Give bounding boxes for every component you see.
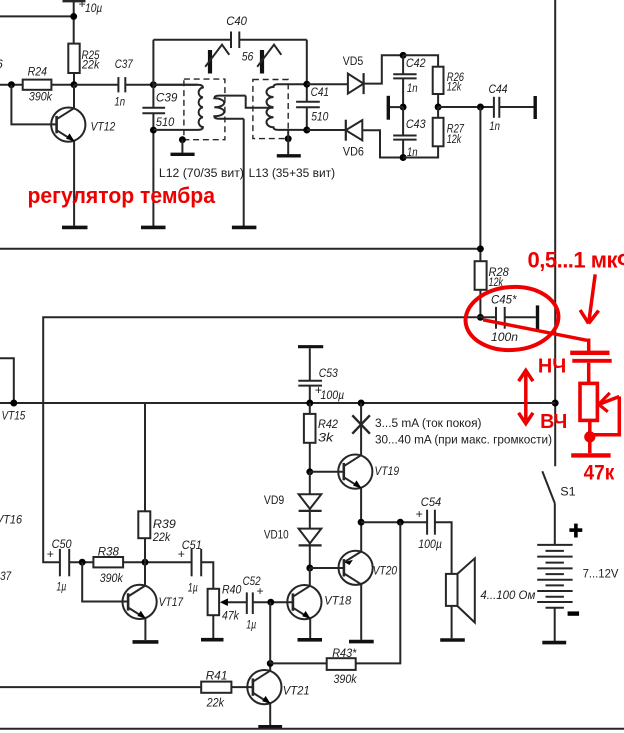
ground L13 shield xyxy=(277,130,301,156)
node VD10 / VT18 collector junction xyxy=(306,565,313,572)
ground VT18 xyxy=(298,638,323,642)
resistor R25 xyxy=(68,44,100,85)
svg-text:10µ: 10µ xyxy=(85,1,102,15)
svg-text:1µ: 1µ xyxy=(246,617,256,631)
inductor L12 shield box (dashed) xyxy=(184,79,225,140)
capacitor C51 xyxy=(178,538,214,595)
ground battery xyxy=(542,641,566,645)
wire left edge to R41 xyxy=(0,686,201,688)
wire top-left to +10u junction xyxy=(0,15,74,17)
svg-text:ВЧ: ВЧ xyxy=(540,411,567,433)
transistor VT17 xyxy=(123,562,185,640)
node VT19 base junction xyxy=(306,468,313,475)
node C52 / VT21 junction xyxy=(267,599,274,606)
svg-text:VD10: VD10 xyxy=(264,527,289,541)
capacitor C34 (+10u, cut at top edge) xyxy=(63,1,86,43)
trimmer arrow L13 xyxy=(257,45,281,74)
svg-text:12k: 12k xyxy=(447,132,462,146)
terminal bar C53 top xyxy=(298,345,323,348)
node base feedback junction xyxy=(8,81,15,88)
red circle around C45 xyxy=(463,284,560,353)
svg-text:+: + xyxy=(416,507,423,521)
capacitor C53 xyxy=(298,348,344,403)
terminal bar C44 output xyxy=(534,96,537,119)
svg-text:47к: 47к xyxy=(584,462,615,485)
node R39/C51 junction xyxy=(142,559,149,566)
speaker BA1 xyxy=(446,558,536,638)
svg-text:1n: 1n xyxy=(489,119,500,133)
red annotations xyxy=(28,183,624,485)
node detector bottom junction xyxy=(400,154,407,161)
svg-text:VD5: VD5 xyxy=(343,54,364,68)
wire C44 junction down to R28 xyxy=(479,107,481,261)
ground VT12 emitter xyxy=(62,226,88,230)
resistor R43* xyxy=(270,522,400,686)
svg-text:C40: C40 xyxy=(226,14,247,28)
transistor VT19 xyxy=(310,455,399,523)
svg-text:VT18: VT18 xyxy=(324,594,351,608)
svg-text:22k: 22k xyxy=(152,530,171,544)
svg-text:12k: 12k xyxy=(447,80,462,94)
svg-text:22k: 22k xyxy=(81,57,100,71)
svg-text:НЧ: НЧ xyxy=(538,356,566,378)
svg-text:R43*: R43* xyxy=(332,646,357,660)
node C39 bottom junction xyxy=(150,127,157,134)
svg-text:390k: 390k xyxy=(334,672,358,686)
resistor R38 xyxy=(93,544,191,585)
svg-text:+: + xyxy=(257,584,264,598)
capacitor C39 xyxy=(142,40,177,226)
resistor R26 xyxy=(403,55,464,107)
switch S1 xyxy=(542,471,576,545)
capacitor C42 xyxy=(393,55,426,107)
svg-text:100n: 100n xyxy=(491,330,518,344)
ground VT21 xyxy=(258,725,282,729)
svg-text:VT12: VT12 xyxy=(91,119,116,133)
ground R40 xyxy=(201,638,224,642)
node L12 shield dot xyxy=(179,136,186,143)
resistor R39 xyxy=(138,403,176,562)
terminal bar common (mid) xyxy=(388,96,403,120)
diode VD6 xyxy=(307,120,403,159)
svg-text:R39: R39 xyxy=(153,517,176,531)
node VT21 collector junction xyxy=(267,660,274,667)
inductor L13 shield box (dashed) xyxy=(253,80,288,139)
node junction at +10u xyxy=(70,13,77,20)
red double arrow NCh/VCh xyxy=(519,370,533,423)
potentiometer R40 xyxy=(208,583,242,639)
svg-text:3...5 mA (ток покоя): 3...5 mA (ток покоя) xyxy=(375,416,482,430)
svg-text:R40: R40 xyxy=(222,583,241,597)
svg-text:3k: 3k xyxy=(318,431,334,445)
transistor VT20 xyxy=(310,522,397,640)
wire left edge to R24 xyxy=(0,84,23,86)
node detector mid junction xyxy=(400,104,407,111)
transistor VT21 xyxy=(247,663,309,725)
node junction y248.8 xyxy=(477,245,484,252)
ground L12 secondary xyxy=(232,226,257,230)
svg-text:56: 56 xyxy=(242,49,254,63)
label battery plus xyxy=(569,524,582,538)
red capacitor NCh xyxy=(570,353,612,384)
wire VT21 collector to C52 junction xyxy=(269,602,271,663)
svg-text:47k: 47k xyxy=(222,609,240,623)
svg-text:6: 6 xyxy=(0,57,3,71)
node C44 junction xyxy=(477,104,484,111)
svg-text:VT17: VT17 xyxy=(159,595,185,609)
node VT19 emitter junction xyxy=(358,519,365,526)
inductor L12 secondary winding xyxy=(214,96,245,119)
svg-text:4...100 Ом: 4...100 Ом xyxy=(480,588,535,602)
svg-text:1n: 1n xyxy=(407,81,418,95)
capacitor C45 xyxy=(480,293,535,344)
node detector top junction xyxy=(400,52,407,59)
svg-text:C37: C37 xyxy=(115,57,134,71)
node amp rail right junction (wire to S1 column) xyxy=(490,402,555,404)
svg-text:390k: 390k xyxy=(29,90,53,104)
node C41 top junction xyxy=(303,81,310,88)
svg-text:R41: R41 xyxy=(206,669,228,683)
inductor L12 primary winding xyxy=(153,85,203,130)
wire L12 secondary top to L13 tap xyxy=(246,96,274,108)
wire R26 junction to C44 xyxy=(438,106,494,108)
svg-text:30...40 mA (при макс. громкост: 30...40 mA (при макс. громкости) xyxy=(375,433,552,447)
wire long rail y=248.8 xyxy=(0,248,480,250)
svg-text:100µ: 100µ xyxy=(321,388,345,402)
red potentiometer 47k xyxy=(571,383,619,455)
svg-text:C50: C50 xyxy=(52,537,72,551)
svg-text:регулятор тембра: регулятор тембра xyxy=(28,183,216,208)
inductor L13 winding xyxy=(267,84,307,130)
label battery minus xyxy=(568,611,580,615)
svg-text:510: 510 xyxy=(311,110,328,124)
wire C50 junction to VT17 base xyxy=(82,562,128,601)
svg-text:22k: 22k xyxy=(206,696,225,710)
svg-text:+: + xyxy=(47,547,54,561)
svg-text:VT20: VT20 xyxy=(373,564,398,578)
node VT19 collector rail junction xyxy=(358,400,365,407)
wire feedback to VT12 base xyxy=(11,85,56,125)
capacitor C44 xyxy=(489,82,534,133)
svg-text:C45*: C45* xyxy=(491,293,518,307)
wire VT15 stub xyxy=(0,358,14,403)
wire emitter junction to C54 xyxy=(361,521,427,523)
diode VD9 xyxy=(264,472,322,529)
node VT15 junction xyxy=(10,400,17,407)
svg-text:1µ: 1µ xyxy=(188,581,198,595)
label +10u xyxy=(79,0,103,15)
battery GB1 7...12V xyxy=(537,545,572,608)
wire C45 junction left and down to C50 xyxy=(43,317,480,562)
terminal bar C45 output xyxy=(536,305,539,330)
transistor VT18 xyxy=(271,568,352,638)
node R43 junction xyxy=(397,519,404,526)
svg-text:VT21: VT21 xyxy=(283,684,310,698)
node C53 rail junction xyxy=(306,400,313,407)
resistor R42 xyxy=(304,403,338,472)
red pointer line C45 to cap xyxy=(483,320,589,351)
ground VT17 xyxy=(133,640,159,644)
svg-text:+: + xyxy=(178,547,185,561)
capacitor C40 xyxy=(153,14,306,63)
node collector junction VT12 xyxy=(71,81,78,88)
node C45 junction xyxy=(477,314,484,321)
wire VT19 collector xyxy=(360,403,362,455)
ground C39 column xyxy=(141,226,166,230)
svg-text:L12 (70/35 вит): L12 (70/35 вит) xyxy=(159,166,244,180)
node C50/R38 junction xyxy=(79,559,86,566)
wire right supply rail xyxy=(554,0,556,466)
diode VD5 xyxy=(307,54,403,94)
svg-text:C43: C43 xyxy=(406,117,426,131)
svg-text:1µ: 1µ xyxy=(56,579,66,593)
svg-text:S1: S1 xyxy=(560,485,576,499)
diode VD10 xyxy=(264,527,322,568)
border bottom xyxy=(0,728,624,730)
svg-text:7...12V: 7...12V xyxy=(583,567,620,581)
capacitor C52 xyxy=(220,574,271,631)
resistor R24 xyxy=(23,65,74,104)
node R26/R27 junction xyxy=(435,104,442,111)
svg-text:1n: 1n xyxy=(114,95,125,109)
svg-text:L13 (35+35 вит): L13 (35+35 вит) xyxy=(249,166,336,180)
measurement mark X xyxy=(352,415,370,433)
svg-text:R38: R38 xyxy=(98,544,119,558)
wire amp supply rail y=403 xyxy=(0,402,555,404)
svg-text:VT16: VT16 xyxy=(0,513,22,527)
svg-text:100µ: 100µ xyxy=(418,537,442,551)
svg-text:C37: C37 xyxy=(0,569,12,583)
ground L12 shield xyxy=(171,140,195,155)
svg-text:0,5...1 мкФ: 0,5...1 мкФ xyxy=(528,248,624,273)
svg-text:390k: 390k xyxy=(100,571,124,585)
node C39 top junction xyxy=(150,81,157,88)
trimmer arrow L12 xyxy=(205,45,229,74)
svg-text:510: 510 xyxy=(156,115,175,129)
capacitor C43 xyxy=(393,107,426,159)
svg-text:C41: C41 xyxy=(311,85,329,99)
ground VT20 xyxy=(349,640,374,644)
svg-text:C53: C53 xyxy=(319,366,338,380)
svg-text:C44: C44 xyxy=(489,82,508,96)
node right rail / amp rail junction xyxy=(552,400,559,407)
node L13 shield dot xyxy=(285,135,292,142)
svg-text:R42: R42 xyxy=(318,417,338,431)
capacitor C50 xyxy=(47,537,94,593)
svg-text:C54: C54 xyxy=(421,495,442,509)
svg-text:C42: C42 xyxy=(406,56,426,70)
capacitor C54 xyxy=(416,495,452,574)
wire L12 secondary bottom to ground xyxy=(243,119,245,226)
red arrow down to cap xyxy=(580,274,599,323)
svg-text:VD9: VD9 xyxy=(264,493,284,507)
resistor R28 xyxy=(475,261,509,317)
resistor R27 xyxy=(403,107,465,158)
svg-text:VT15: VT15 xyxy=(2,408,26,422)
svg-text:C39: C39 xyxy=(156,90,178,104)
node C41 bottom junction xyxy=(303,127,310,134)
capacitor C41 xyxy=(296,40,329,130)
ground speaker xyxy=(440,638,465,642)
svg-text:R24: R24 xyxy=(28,65,48,79)
svg-text:VT19: VT19 xyxy=(375,464,400,478)
transistor VT12 xyxy=(51,85,115,226)
resistor R41 xyxy=(201,669,253,710)
svg-text:VD6: VD6 xyxy=(343,144,364,158)
capacitor C37 xyxy=(74,57,198,109)
